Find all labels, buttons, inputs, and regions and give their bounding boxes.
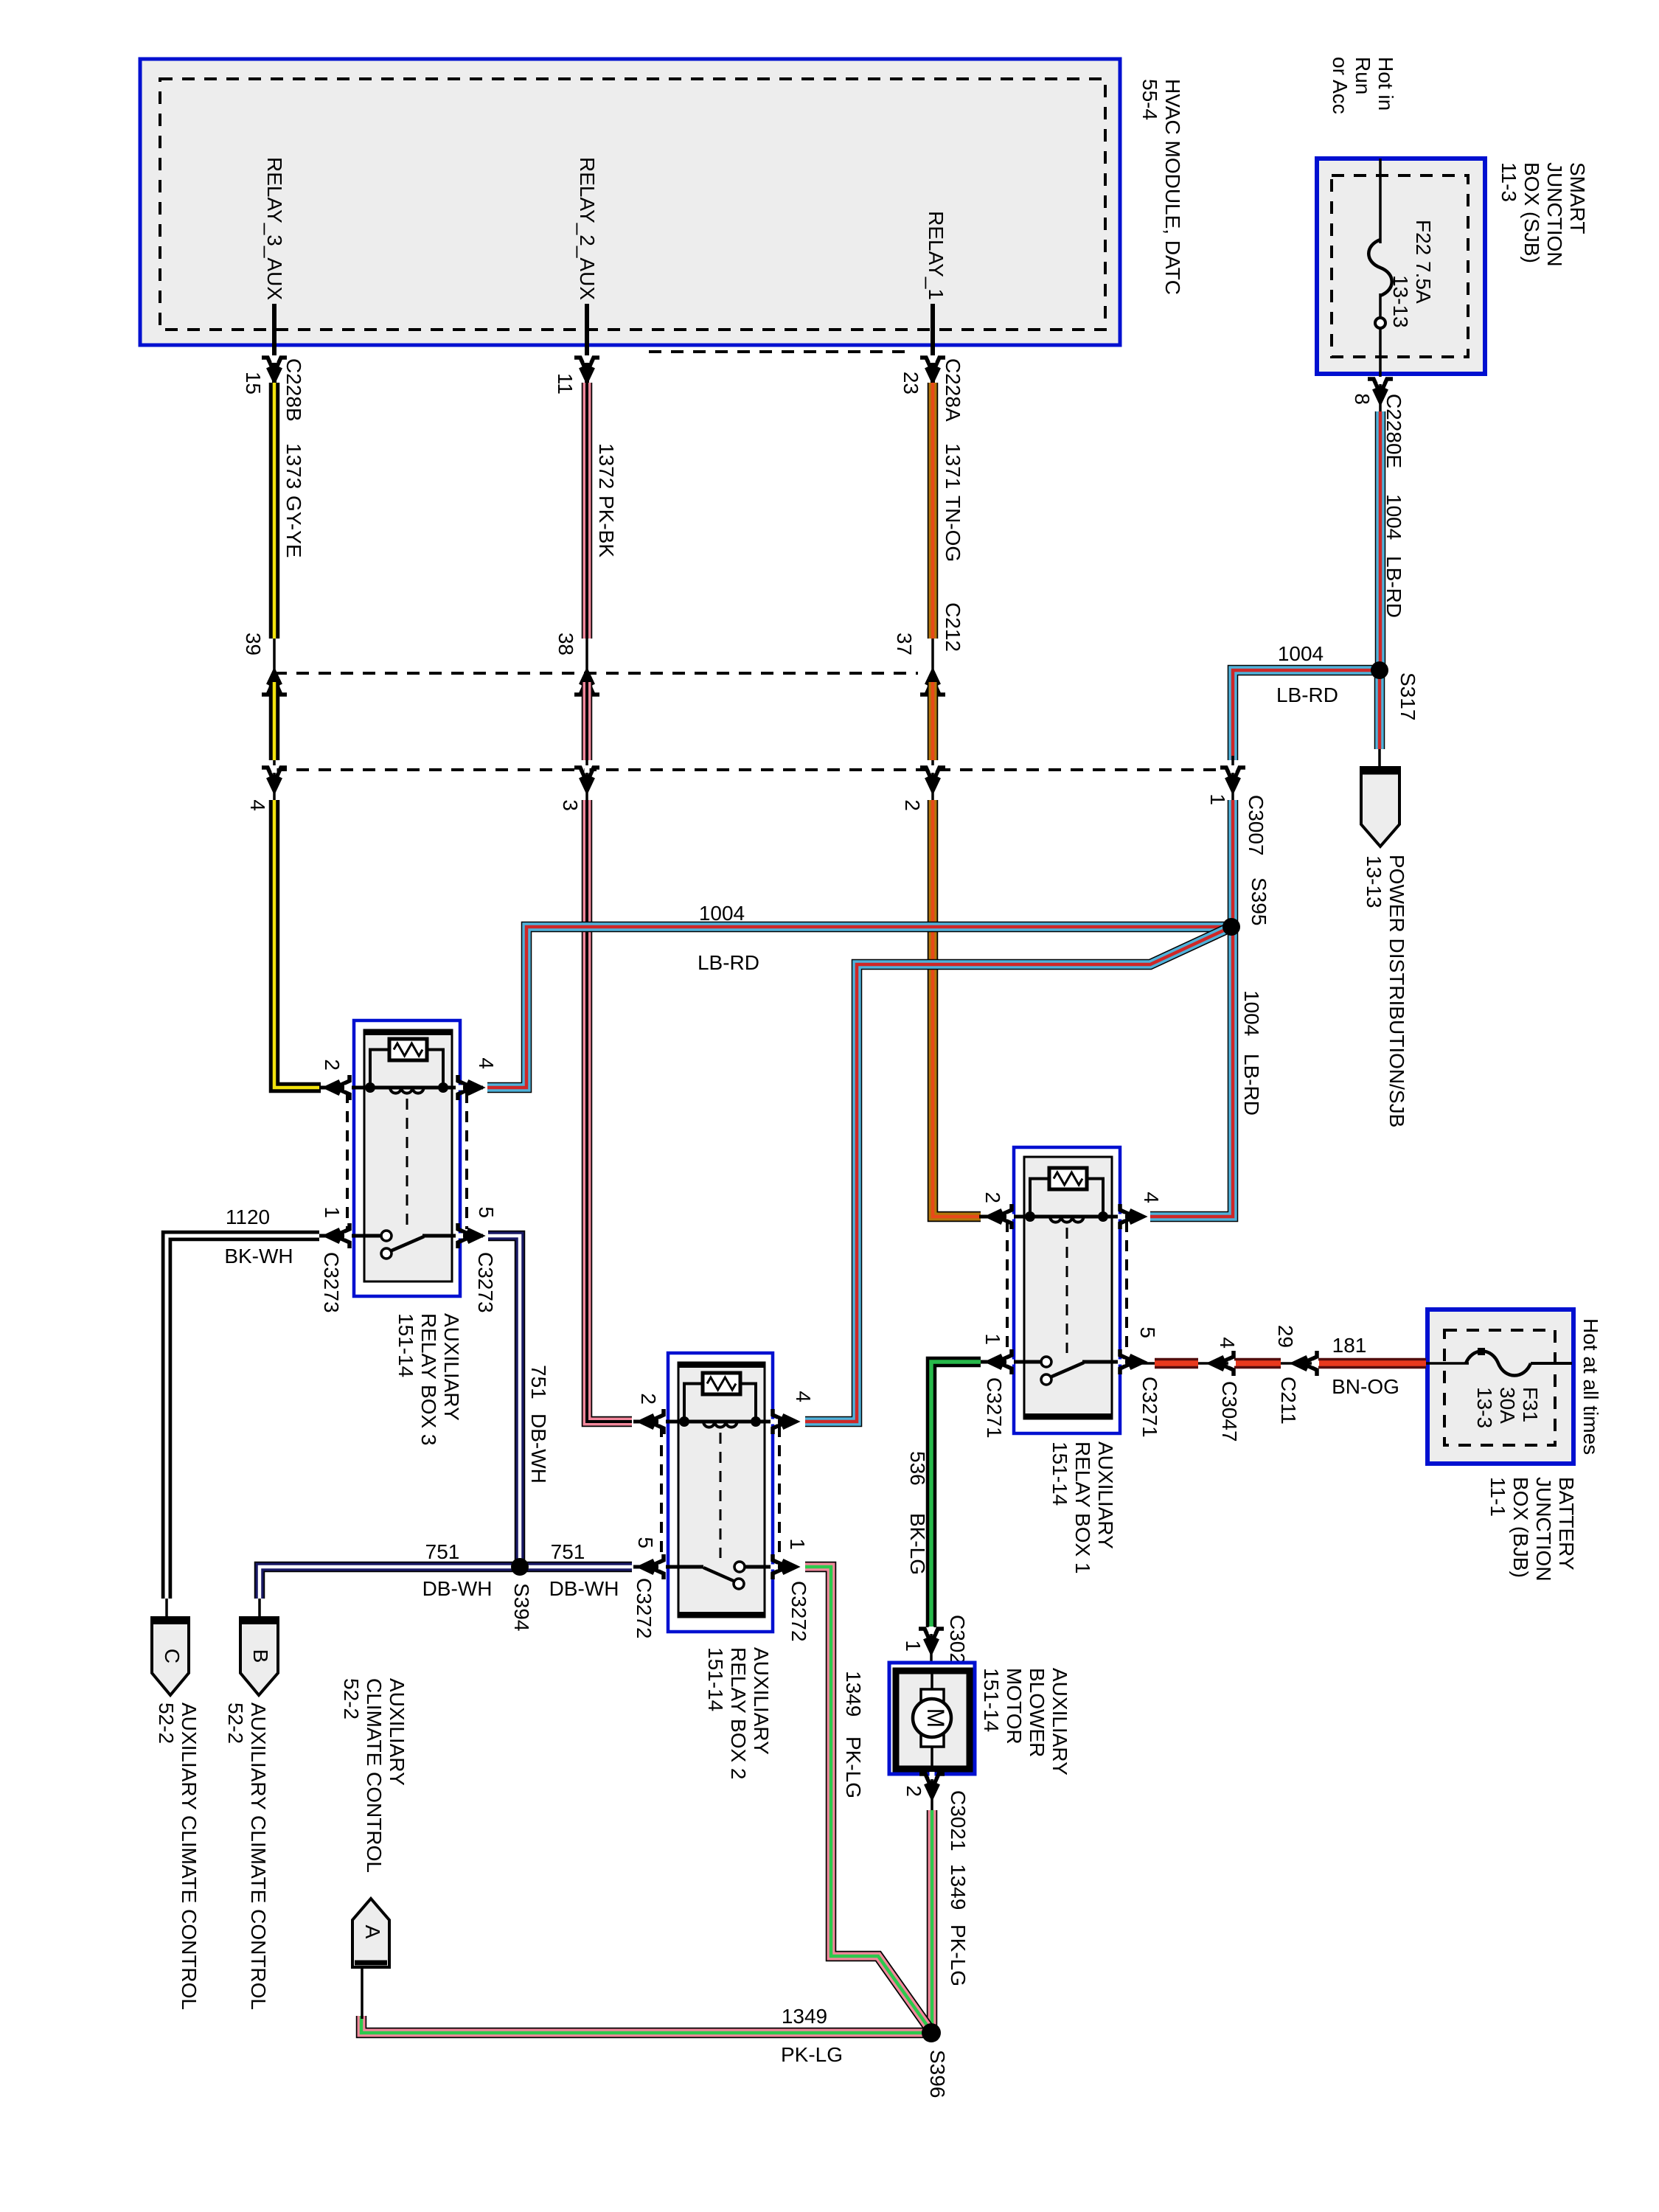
relay K1 (aux relay box 1) coil row line: [979, 1215, 1143, 1219]
svg-text:4: 4: [792, 1391, 815, 1402]
relay K1 (aux relay box 1) inner case thick bottom: [1024, 1413, 1112, 1419]
svg-text:C3271: C3271: [1138, 1377, 1161, 1438]
motor internal wire: [931, 1671, 933, 1769]
relay K2 (aux relay box 2) coil: [703, 1422, 737, 1427]
smart junction box (outer): [1317, 159, 1485, 374]
svg-text:1004: 1004: [699, 902, 745, 925]
svg-text:C3007: C3007: [1245, 795, 1267, 856]
svg-text:SMART: SMART: [1566, 162, 1589, 234]
relay K3 (aux relay box 3) inner case: [364, 1030, 452, 1281]
row1 arrow pin38: [574, 680, 599, 695]
relay K1 (aux relay box 1) connector dashed lines: [1006, 1221, 1009, 1355]
svg-text:55-4: 55-4: [1138, 79, 1161, 120]
wire segment to C3271: [1155, 1358, 1198, 1369]
relay K3 (aux relay box 3) resistor link left: [370, 1050, 389, 1088]
row1 arrow pin39: [262, 680, 287, 695]
HVAC module DATC box (outer): [140, 59, 1120, 345]
B connector stub: [258, 1599, 261, 1619]
off-page connector A: [352, 1899, 389, 1967]
svg-text:1: 1: [981, 1333, 1004, 1345]
row2 arrow pin3: [574, 768, 599, 782]
svg-text:1004: 1004: [1278, 642, 1324, 665]
wire 1120 BK-WH: [167, 1236, 319, 1599]
relay K1 (aux relay box 1) actuator dashed line: [1066, 1228, 1068, 1353]
BJB feed line: [1141, 1362, 1469, 1365]
wire gap line row1 x=1265: [931, 634, 934, 686]
relay2 pin2 arrow: [649, 1409, 664, 1434]
C3007 connector arrow: [1220, 768, 1245, 782]
wire 181 BN-OG segment: [1318, 1358, 1426, 1369]
wire 536 BK-LG: [931, 1362, 981, 1627]
relay2 pin5 arrow: [649, 1554, 664, 1579]
pin 23 connector arrow: [920, 358, 945, 372]
svg-text:1: 1: [786, 1538, 809, 1550]
svg-text:151-14: 151-14: [394, 1313, 417, 1377]
HVAC pin stub x=372: [272, 304, 276, 386]
svg-text:F22 7.5A: F22 7.5A: [1412, 220, 1435, 304]
wire gap line row2 x=372: [273, 756, 276, 805]
svg-text:BK-LG: BK-LG: [906, 1513, 929, 1575]
relay K3 (aux relay box 3) coil row line: [319, 1086, 483, 1090]
junction S396: [922, 2023, 941, 2042]
relay K1 (aux relay box 1) resistor: [1049, 1168, 1087, 1189]
svg-text:RELAY_2_AUX: RELAY_2_AUX: [576, 157, 599, 300]
svg-text:PK-LG: PK-LG: [842, 1736, 865, 1798]
svg-text:1004: 1004: [1382, 494, 1405, 540]
wire 1349 PK-LG from relay2: [805, 1567, 931, 2031]
svg-text:F31: F31: [1519, 1387, 1542, 1422]
pin 11 connector arrow: [574, 358, 599, 372]
svg-text:AUXILIARY: AUXILIARY: [440, 1313, 463, 1421]
svg-text:39: 39: [242, 633, 265, 655]
svg-text:11: 11: [554, 373, 577, 394]
relay K2 (aux relay box 2) switch contacts: [734, 1562, 745, 1572]
HVAC module dashed boundary extension: [649, 350, 907, 353]
relay K3 (aux relay box 3) switch blade: [390, 1237, 424, 1251]
svg-text:181: 181: [1332, 1334, 1367, 1357]
svg-text:1349: 1349: [842, 1671, 865, 1717]
svg-text:C2280E: C2280E: [1382, 394, 1405, 468]
svg-text:13-13: 13-13: [1389, 275, 1412, 328]
svg-text:2: 2: [637, 1393, 660, 1405]
svg-text:38: 38: [554, 633, 577, 655]
pin 15 connector arrow: [262, 358, 287, 372]
svg-text:151-14: 151-14: [1048, 1441, 1071, 1506]
off-page connector C: [152, 1618, 189, 1695]
svg-text:11-3: 11-3: [1498, 162, 1520, 202]
svg-text:Hot in: Hot in: [1374, 57, 1397, 111]
fuse F22 terminal circle: [1375, 318, 1385, 328]
svg-text:AUXILIARY CLIMATE CONTROL: AUXILIARY CLIMATE CONTROL: [247, 1703, 270, 2010]
BJB dashed boundary: [1444, 1330, 1555, 1445]
svg-text:2: 2: [901, 799, 924, 811]
C connector stub: [165, 1599, 168, 1619]
svg-text:5: 5: [475, 1206, 498, 1218]
svg-text:C211: C211: [1277, 1377, 1300, 1425]
wire gap line row2 x=796: [585, 756, 588, 805]
svg-text:AUXILIARY: AUXILIARY: [1048, 1668, 1071, 1775]
svg-text:2: 2: [321, 1059, 344, 1071]
svg-text:M: M: [922, 1708, 949, 1728]
svg-text:52-2: 52-2: [155, 1703, 178, 1744]
relay K2 (aux relay box 2) box (outer): [668, 1353, 773, 1632]
svg-text:1: 1: [1206, 793, 1229, 805]
junction S317: [1371, 661, 1388, 679]
relay K1 (aux relay box 1) resistor link right: [1087, 1179, 1103, 1217]
svg-text:LB-RD: LB-RD: [1382, 556, 1405, 618]
svg-text:S395: S395: [1248, 877, 1270, 925]
svg-text:AUXILIARY CLIMATE CONTROL: AUXILIARY CLIMATE CONTROL: [178, 1703, 201, 2010]
motor pin1 arrow: [919, 1629, 944, 1644]
svg-text:C228A: C228A: [942, 358, 964, 422]
svg-text:AUXILIARY: AUXILIARY: [750, 1647, 773, 1755]
row1 arrow pin37: [920, 680, 945, 695]
relay3 pin2 arrow: [335, 1075, 349, 1100]
wire gap line row2 x=1265: [931, 756, 934, 805]
svg-text:151-14: 151-14: [704, 1647, 727, 1711]
relay K3 (aux relay box 3) switch contacts: [381, 1231, 392, 1241]
wire 751 DB-WH to B connector: [260, 1567, 520, 1599]
svg-text:C212: C212: [942, 602, 964, 652]
relay3 pin5 arrow: [458, 1223, 473, 1248]
relay K1 (aux relay box 1) box (outer): [1014, 1147, 1120, 1433]
motor brush bottom: [921, 1735, 944, 1747]
svg-text:RELAY_3_AUX: RELAY_3_AUX: [263, 157, 286, 300]
svg-text:8: 8: [1351, 393, 1374, 405]
svg-text:RELAY_1: RELAY_1: [925, 211, 947, 300]
wire 751 DB-WH from relay3 pin5: [488, 1236, 520, 1567]
svg-text:PK-LG: PK-LG: [947, 1924, 970, 1986]
SJB dashed boundary: [1332, 175, 1468, 357]
svg-text:or Acc: or Acc: [1329, 57, 1352, 114]
svg-text:C3272: C3272: [633, 1578, 655, 1639]
svg-text:751: 751: [527, 1365, 550, 1399]
relay1 pin4 arrow: [1120, 1204, 1135, 1229]
svg-text:RELAY BOX 2: RELAY BOX 2: [727, 1647, 750, 1780]
svg-text:30A: 30A: [1496, 1387, 1519, 1424]
relay K1 (aux relay box 1) switch row line: [979, 1360, 1041, 1364]
wire 1004 LB-RD long branch: [487, 927, 1231, 1088]
svg-text:LB-RD: LB-RD: [698, 951, 759, 974]
svg-text:RELAY BOX 3: RELAY BOX 3: [417, 1313, 440, 1446]
wire 1371 TN-OG: [928, 383, 939, 639]
wire gap line row1 x=796: [585, 634, 588, 686]
svg-text:C3273: C3273: [474, 1252, 497, 1313]
svg-text:S396: S396: [926, 2050, 949, 2098]
row2 arrow pin2: [920, 768, 945, 782]
svg-text:C3047: C3047: [1218, 1381, 1241, 1442]
relay K2 (aux relay box 2) inner case: [678, 1363, 765, 1617]
svg-text:LB-RD: LB-RD: [1276, 684, 1338, 706]
relay K2 (aux relay box 2) inner case thick top: [678, 1362, 765, 1368]
relay K3 (aux relay box 3) coil terminal dots: [365, 1082, 375, 1093]
svg-text:DB-WH: DB-WH: [422, 1577, 493, 1600]
SJB internal wire: [1379, 159, 1382, 243]
motor pin1 gap line: [930, 1627, 933, 1670]
svg-text:JUNCTION: JUNCTION: [1543, 162, 1566, 267]
fuse F31 terminal: [1531, 1362, 1572, 1365]
relay K2 (aux relay box 2) coil row line: [633, 1420, 796, 1424]
svg-text:Run: Run: [1352, 57, 1374, 94]
svg-text:52-2: 52-2: [340, 1678, 363, 1719]
svg-text:C3273: C3273: [320, 1252, 343, 1313]
relay1 pin1 arrow: [997, 1349, 1012, 1374]
relay K2 (aux relay box 2) resistor link left: [684, 1384, 703, 1422]
relay K3 (aux relay box 3) inner case thick top: [364, 1029, 452, 1035]
HVAC module dashed boundary: [160, 79, 1105, 330]
svg-text:1: 1: [902, 1640, 925, 1652]
svg-text:CLIMATE CONTROL: CLIMATE CONTROL: [363, 1678, 386, 1873]
svg-text:1372: 1372: [595, 443, 618, 489]
relay K1 (aux relay box 1) coil terminal dots: [1025, 1211, 1035, 1222]
svg-text:B: B: [249, 1649, 272, 1663]
connector row C212 dashed line: [274, 672, 918, 675]
relay K2 (aux relay box 2) resistor: [703, 1373, 740, 1394]
motor pin2 arrow: [919, 1774, 945, 1789]
wire 1004 LB-RD relay2 branch: [805, 927, 1231, 1422]
svg-text:1349: 1349: [947, 1864, 970, 1910]
wire 1373 GY-YE: [269, 383, 280, 639]
svg-text:DB-WH: DB-WH: [527, 1413, 550, 1484]
relay2 pin1 arrow: [773, 1554, 787, 1579]
svg-text:52-2: 52-2: [224, 1703, 247, 1744]
wire 1004 LB-RD SJB drop: [1375, 411, 1386, 665]
svg-text:37: 37: [893, 633, 916, 655]
svg-text:JUNCTION: JUNCTION: [1532, 1477, 1555, 1582]
relay K2 (aux relay box 2) actuator dashed line: [720, 1433, 722, 1558]
junction S394: [511, 1558, 529, 1576]
svg-text:C3021: C3021: [947, 1790, 970, 1851]
relay K3 (aux relay box 3) resistor link right: [427, 1050, 443, 1088]
svg-text:23: 23: [900, 372, 922, 394]
svg-text:AUXILIARY: AUXILIARY: [386, 1678, 408, 1786]
relay K2 (aux relay box 2) resistor link right: [740, 1384, 756, 1422]
relay K1 (aux relay box 1) switch blade: [1050, 1363, 1084, 1377]
svg-text:3: 3: [559, 799, 582, 811]
wire 1004 LB-RD below S317: [1374, 677, 1385, 749]
HVAC pin stub x=1265: [931, 304, 935, 386]
svg-text:BATTERY: BATTERY: [1555, 1477, 1578, 1571]
relay K2 (aux relay box 2) switch row line: [633, 1565, 703, 1569]
svg-text:C3272: C3272: [787, 1581, 810, 1642]
power distribution off-page connector: [1361, 768, 1399, 846]
svg-text:S394: S394: [510, 1583, 533, 1631]
relay3 pin4 arrow: [458, 1075, 473, 1100]
relay K1 (aux relay box 1) coil: [1050, 1217, 1084, 1222]
svg-text:DB-WH: DB-WH: [549, 1577, 619, 1600]
svg-text:C: C: [161, 1649, 184, 1663]
svg-text:4: 4: [475, 1057, 498, 1069]
relay1 pin2 arrow: [997, 1204, 1012, 1229]
wire 1372 PK-BK: [582, 383, 593, 639]
relay K3 (aux relay box 3) actuator dashed line: [406, 1099, 408, 1227]
pin 8 connector arrow: [1368, 379, 1393, 394]
svg-text:2: 2: [981, 1192, 1004, 1203]
svg-text:LB-RD: LB-RD: [1240, 1054, 1263, 1116]
wire 751 DB-WH to relay2 pin5: [520, 1562, 632, 1573]
C211 connector arrow: [1302, 1351, 1317, 1376]
relay K3 (aux relay box 3) resistor: [389, 1039, 427, 1060]
wire 1349 PK-LG long branch: [361, 2016, 931, 2033]
power distribution stub: [1378, 749, 1381, 771]
svg-text:11-1: 11-1: [1486, 1477, 1509, 1517]
svg-text:5: 5: [1136, 1326, 1159, 1338]
svg-text:BN-OG: BN-OG: [1332, 1375, 1399, 1398]
svg-text:Hot at all times: Hot at all times: [1579, 1318, 1602, 1455]
relay K3 (aux relay box 3) box (outer): [354, 1020, 460, 1296]
svg-text:751: 751: [551, 1540, 585, 1563]
svg-text:BK-WH: BK-WH: [224, 1245, 293, 1267]
connector row C3007 dashed line: [274, 768, 1219, 771]
junction S395: [1222, 918, 1240, 936]
relay K2 (aux relay box 2) connector dashed lines: [660, 1426, 663, 1560]
relay K3 (aux relay box 3) coil: [390, 1088, 424, 1093]
relay K1 (aux relay box 1) switch contacts: [1041, 1357, 1051, 1367]
svg-text:1371: 1371: [942, 443, 964, 489]
svg-text:C228B: C228B: [282, 358, 305, 422]
wire gap line row1 x=372: [273, 634, 276, 686]
svg-text:PK-BK: PK-BK: [595, 495, 618, 557]
svg-text:1373: 1373: [282, 443, 305, 489]
svg-text:C3271: C3271: [983, 1377, 1006, 1439]
svg-text:BOX (SJB): BOX (SJB): [1520, 162, 1543, 263]
svg-text:4: 4: [1140, 1192, 1163, 1203]
fuse F22 terminal: [1379, 293, 1382, 413]
relay K2 (aux relay box 2) switch blade: [703, 1568, 735, 1582]
svg-text:1120: 1120: [226, 1206, 270, 1228]
svg-text:2: 2: [902, 1785, 925, 1797]
svg-text:536: 536: [906, 1451, 929, 1486]
relay K3 (aux relay box 3) connector dashed lines: [346, 1092, 349, 1229]
relay K3 (aux relay box 3) switch row line: [319, 1234, 381, 1238]
relay K1 (aux relay box 1) inner case: [1024, 1157, 1112, 1419]
relay1 pin5 arrow: [1120, 1349, 1135, 1374]
fuse F31 element dot: [1478, 1348, 1485, 1355]
svg-text:TN-OG: TN-OG: [942, 495, 964, 562]
svg-text:15: 15: [242, 372, 265, 394]
svg-text:PK-LG: PK-LG: [781, 2043, 843, 2066]
relay K2 (aux relay box 2) inner case thick bottom: [678, 1612, 765, 1618]
svg-text:1: 1: [321, 1206, 344, 1218]
motor pin2 gap line: [931, 1769, 933, 1810]
relay2 pin4 arrow: [773, 1409, 787, 1434]
svg-text:1004: 1004: [1240, 990, 1263, 1036]
svg-text:13-13: 13-13: [1363, 855, 1385, 908]
svg-text:POWER DISTRIBUTION/SJB: POWER DISTRIBUTION/SJB: [1385, 855, 1408, 1127]
relay K1 (aux relay box 1) resistor link left: [1030, 1179, 1049, 1217]
svg-text:GY-YE: GY-YE: [282, 495, 305, 558]
svg-text:4: 4: [246, 799, 269, 811]
svg-text:13-3: 13-3: [1473, 1387, 1496, 1428]
svg-text:151-14: 151-14: [980, 1668, 1003, 1732]
off-page connector B: [240, 1618, 278, 1695]
wire 1004 LB-RD to S395: [1150, 800, 1233, 1217]
svg-text:BOX (BJB): BOX (BJB): [1509, 1477, 1532, 1578]
svg-text:AUXILIARY: AUXILIARY: [1094, 1441, 1117, 1549]
relay3 pin1 arrow: [335, 1223, 349, 1248]
motor brush top: [921, 1689, 944, 1701]
wire 1004 LB-RD S317 branch: [1233, 670, 1380, 760]
svg-text:1349: 1349: [782, 2005, 827, 2028]
svg-text:29: 29: [1274, 1325, 1297, 1348]
relay K2 (aux relay box 2) coil terminal dots: [679, 1416, 689, 1427]
svg-text:A: A: [361, 1925, 384, 1939]
fuse F22: [1368, 240, 1392, 296]
wire 29 segment: [1234, 1358, 1281, 1369]
HVAC pin stub x=796: [585, 304, 589, 386]
wire 1349 PK-LG from motor: [927, 1810, 938, 2033]
svg-text:5: 5: [634, 1537, 657, 1548]
svg-text:RELAY BOX 1: RELAY BOX 1: [1071, 1441, 1094, 1574]
C3047 connector arrow: [1219, 1351, 1234, 1376]
svg-text:HVAC MODULE, DATC: HVAC MODULE, DATC: [1161, 79, 1184, 295]
battery junction box (outer): [1427, 1310, 1573, 1464]
fuse F31: [1466, 1352, 1531, 1376]
aux blower motor box (outer): [889, 1663, 975, 1774]
svg-text:4: 4: [1216, 1337, 1239, 1349]
row2 arrow pin4: [262, 768, 287, 782]
C3007 gap line: [1231, 756, 1234, 805]
svg-text:S317: S317: [1397, 672, 1419, 720]
svg-text:MOTOR: MOTOR: [1003, 1668, 1026, 1745]
motor M circle: [913, 1699, 951, 1737]
svg-text:BLOWER: BLOWER: [1026, 1668, 1048, 1757]
svg-text:751: 751: [425, 1540, 460, 1563]
A connector stub: [361, 1966, 364, 2019]
aux blower motor inner case: [896, 1671, 970, 1769]
